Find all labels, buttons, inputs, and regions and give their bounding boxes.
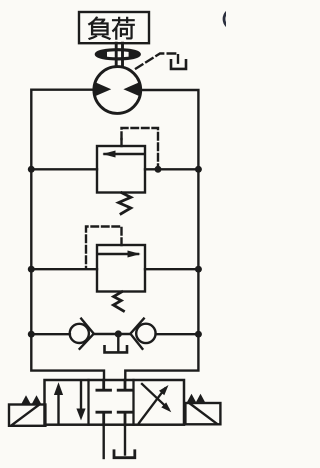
wire: valve V2 line left <box>31 268 97 270</box>
case drain dashed line <box>136 54 178 69</box>
T tank symbol <box>114 451 135 458</box>
DV centre blocked port T <box>118 412 132 425</box>
node right rail / V2 <box>195 266 202 273</box>
relief valve V2 body <box>97 245 145 292</box>
V1 arrow (left) <box>105 153 145 155</box>
CV1 seat <box>80 319 94 349</box>
SOL-b diagonal <box>191 404 217 424</box>
node right rail / V1 <box>195 166 202 173</box>
coupling disc (ellipse) <box>96 50 139 59</box>
center drain drop wire <box>117 334 119 352</box>
wire: valve V2 line right <box>145 268 198 270</box>
node left rail / V2 <box>28 266 35 273</box>
DV left envelope up arrow <box>57 388 59 425</box>
DV centre blocked port B <box>118 380 132 390</box>
node right rail / check row <box>195 331 202 338</box>
V2 pilot dashed line <box>86 227 122 269</box>
DV centre blocked port A <box>97 380 111 390</box>
SOL-a pilot triangles <box>21 395 31 404</box>
DV left envelope down arrow <box>80 381 82 412</box>
SOL-b pilot triangles <box>187 394 197 403</box>
wire: P supply line <box>102 425 104 458</box>
wire: right rail <box>125 90 198 380</box>
wire: T return line <box>124 425 126 455</box>
node left rail / V1 <box>28 166 35 173</box>
V2 arrow (right) <box>98 253 138 255</box>
wire: valve V1 line left <box>31 168 97 170</box>
wire: check row right <box>156 333 199 335</box>
check valve CV1 (left) ball <box>70 324 89 343</box>
V2 spring <box>113 292 123 311</box>
V1 pilot dashed line <box>122 128 159 168</box>
relief valve V1 body <box>97 146 145 193</box>
wire: valve V1 line right <box>145 168 198 170</box>
SOL-a diagonal <box>12 405 39 425</box>
DV centre blocked port P <box>97 412 111 425</box>
motor arrow left <box>94 82 111 97</box>
DV divider 1 <box>87 380 89 425</box>
DV right envelope cross arrow 1 <box>139 389 165 424</box>
node pilot tap V1 <box>155 166 162 173</box>
node center drain junction <box>115 330 122 337</box>
wire: check row left <box>31 333 70 335</box>
check valve CV2 (right) ball <box>136 324 155 343</box>
directional valve DV body <box>45 380 185 425</box>
coupling shaft <box>115 43 118 66</box>
DV right envelope cross arrow 2 <box>142 384 168 409</box>
center drain tank symbol <box>105 346 128 352</box>
drain tank symbol <box>171 60 186 69</box>
V1 pilot stub <box>120 139 122 146</box>
wire: left rail <box>31 90 104 380</box>
CV2 seat <box>130 319 143 349</box>
node left rail / check row <box>28 331 35 338</box>
hydraulic motor M1 circle <box>94 67 141 114</box>
DV divider 2 <box>132 380 134 425</box>
V1 spring <box>119 193 131 214</box>
label 負荷 <box>88 17 134 40</box>
wire: check row center <box>94 333 131 335</box>
motor arrow right <box>123 82 140 97</box>
solenoid operator SOL-a (left) box <box>9 405 45 426</box>
solenoid operator SOL-b (right) box <box>185 403 220 424</box>
load box (負荷) <box>79 12 149 43</box>
partial parenthesis top right <box>224 10 229 28</box>
